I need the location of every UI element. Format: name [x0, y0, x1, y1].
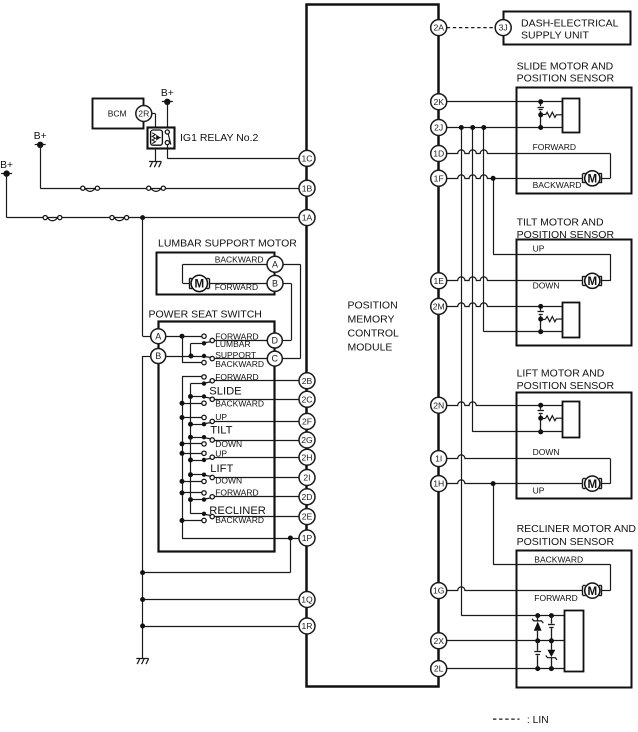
svg-text:2X: 2X	[433, 636, 444, 646]
svg-text:1D: 1D	[433, 149, 444, 159]
svg-text:BACKWARD: BACKWARD	[215, 255, 264, 265]
svg-text:3J: 3J	[499, 23, 508, 33]
svg-text:SLIDE: SLIDE	[209, 385, 241, 397]
svg-text:POSITION SENSOR: POSITION SENSOR	[517, 380, 615, 392]
svg-text:2B: 2B	[302, 376, 313, 386]
svg-text:LUMBAR: LUMBAR	[215, 339, 250, 349]
svg-text:2N: 2N	[433, 400, 444, 410]
svg-text:1E: 1E	[433, 276, 444, 286]
svg-text:UP: UP	[533, 243, 545, 253]
svg-text:B: B	[155, 351, 161, 361]
svg-text:TILT: TILT	[210, 425, 232, 437]
svg-text:MODULE: MODULE	[348, 341, 393, 353]
svg-text:POSITION SENSOR: POSITION SENSOR	[517, 536, 615, 548]
svg-text:B+: B+	[0, 160, 13, 171]
svg-text:TILT MOTOR AND: TILT MOTOR AND	[517, 216, 604, 228]
svg-text:2D: 2D	[302, 492, 313, 502]
svg-text:M: M	[194, 278, 204, 291]
svg-text:: LIN: : LIN	[527, 715, 549, 726]
svg-text:M: M	[587, 478, 597, 491]
svg-text:1H: 1H	[433, 479, 444, 489]
svg-text:2J: 2J	[434, 123, 443, 133]
svg-text:DOWN: DOWN	[215, 439, 242, 449]
svg-text:M: M	[587, 173, 597, 186]
svg-text:2I: 2I	[303, 473, 310, 483]
svg-text:1P: 1P	[302, 533, 313, 543]
svg-text:POSITION SENSOR: POSITION SENSOR	[517, 73, 615, 85]
svg-text:1B: 1B	[302, 183, 313, 193]
svg-text:M: M	[587, 585, 597, 598]
svg-text:FORWARD: FORWARD	[215, 372, 258, 382]
svg-text:IG1 RELAY No.2: IG1 RELAY No.2	[180, 132, 259, 144]
svg-text:2L: 2L	[434, 664, 444, 674]
svg-text:UP: UP	[215, 412, 227, 422]
svg-text:POWER SEAT SWITCH: POWER SEAT SWITCH	[149, 309, 262, 321]
svg-text:LIFT: LIFT	[210, 463, 233, 475]
svg-text:DOWN: DOWN	[533, 280, 560, 290]
svg-text:2E: 2E	[302, 512, 313, 522]
svg-text:2M: 2M	[433, 302, 445, 312]
svg-text:D: D	[272, 336, 279, 346]
svg-text:2R: 2R	[138, 109, 149, 119]
svg-text:1Q: 1Q	[301, 595, 313, 605]
svg-text:DOWN: DOWN	[215, 476, 242, 486]
svg-text:POSITION: POSITION	[348, 299, 398, 311]
svg-text:FORWARD: FORWARD	[534, 593, 577, 603]
svg-text:BACKWARD: BACKWARD	[215, 515, 264, 525]
svg-text:BACKWARD: BACKWARD	[533, 180, 582, 190]
svg-text:MEMORY: MEMORY	[348, 313, 395, 325]
svg-text:A: A	[155, 331, 161, 341]
svg-text:A: A	[272, 259, 278, 269]
svg-text:BACKWARD: BACKWARD	[534, 555, 583, 565]
svg-text:C: C	[272, 354, 279, 364]
svg-text:LIFT MOTOR AND: LIFT MOTOR AND	[517, 368, 605, 380]
svg-text:2G: 2G	[301, 435, 313, 445]
svg-text:LUMBAR SUPPORT MOTOR: LUMBAR SUPPORT MOTOR	[158, 238, 297, 250]
svg-text:BACKWARD: BACKWARD	[215, 359, 264, 369]
svg-text:B: B	[272, 279, 278, 289]
svg-text:2H: 2H	[302, 452, 313, 462]
svg-text:1A: 1A	[302, 213, 313, 223]
svg-text:UP: UP	[533, 485, 545, 495]
svg-text:DOWN: DOWN	[533, 447, 560, 457]
svg-text:2A: 2A	[433, 23, 444, 33]
svg-text:DASH-ELECTRICAL: DASH-ELECTRICAL	[521, 17, 619, 29]
svg-text:1I: 1I	[435, 454, 442, 464]
svg-text:CONTROL: CONTROL	[348, 327, 399, 339]
svg-text:1F: 1F	[434, 173, 444, 183]
svg-text:FORWARD: FORWARD	[215, 488, 258, 498]
svg-text:2F: 2F	[302, 417, 312, 427]
svg-text:RECLINER MOTOR AND: RECLINER MOTOR AND	[517, 523, 637, 535]
svg-text:UP: UP	[215, 449, 227, 459]
svg-text:M: M	[587, 275, 597, 288]
svg-text:1R: 1R	[302, 621, 313, 631]
svg-text:1G: 1G	[433, 586, 445, 596]
svg-text:B+: B+	[161, 88, 174, 99]
svg-text:FORWARD: FORWARD	[533, 142, 576, 152]
svg-text:2K: 2K	[433, 97, 444, 107]
svg-text:1C: 1C	[302, 154, 313, 164]
svg-text:BACKWARD: BACKWARD	[215, 399, 264, 409]
svg-text:SLIDE MOTOR AND: SLIDE MOTOR AND	[517, 60, 614, 72]
svg-text:B+: B+	[34, 131, 47, 142]
svg-text:BCM: BCM	[108, 109, 127, 119]
svg-text:2C: 2C	[302, 394, 313, 404]
svg-text:SUPPLY UNIT: SUPPLY UNIT	[521, 30, 589, 42]
